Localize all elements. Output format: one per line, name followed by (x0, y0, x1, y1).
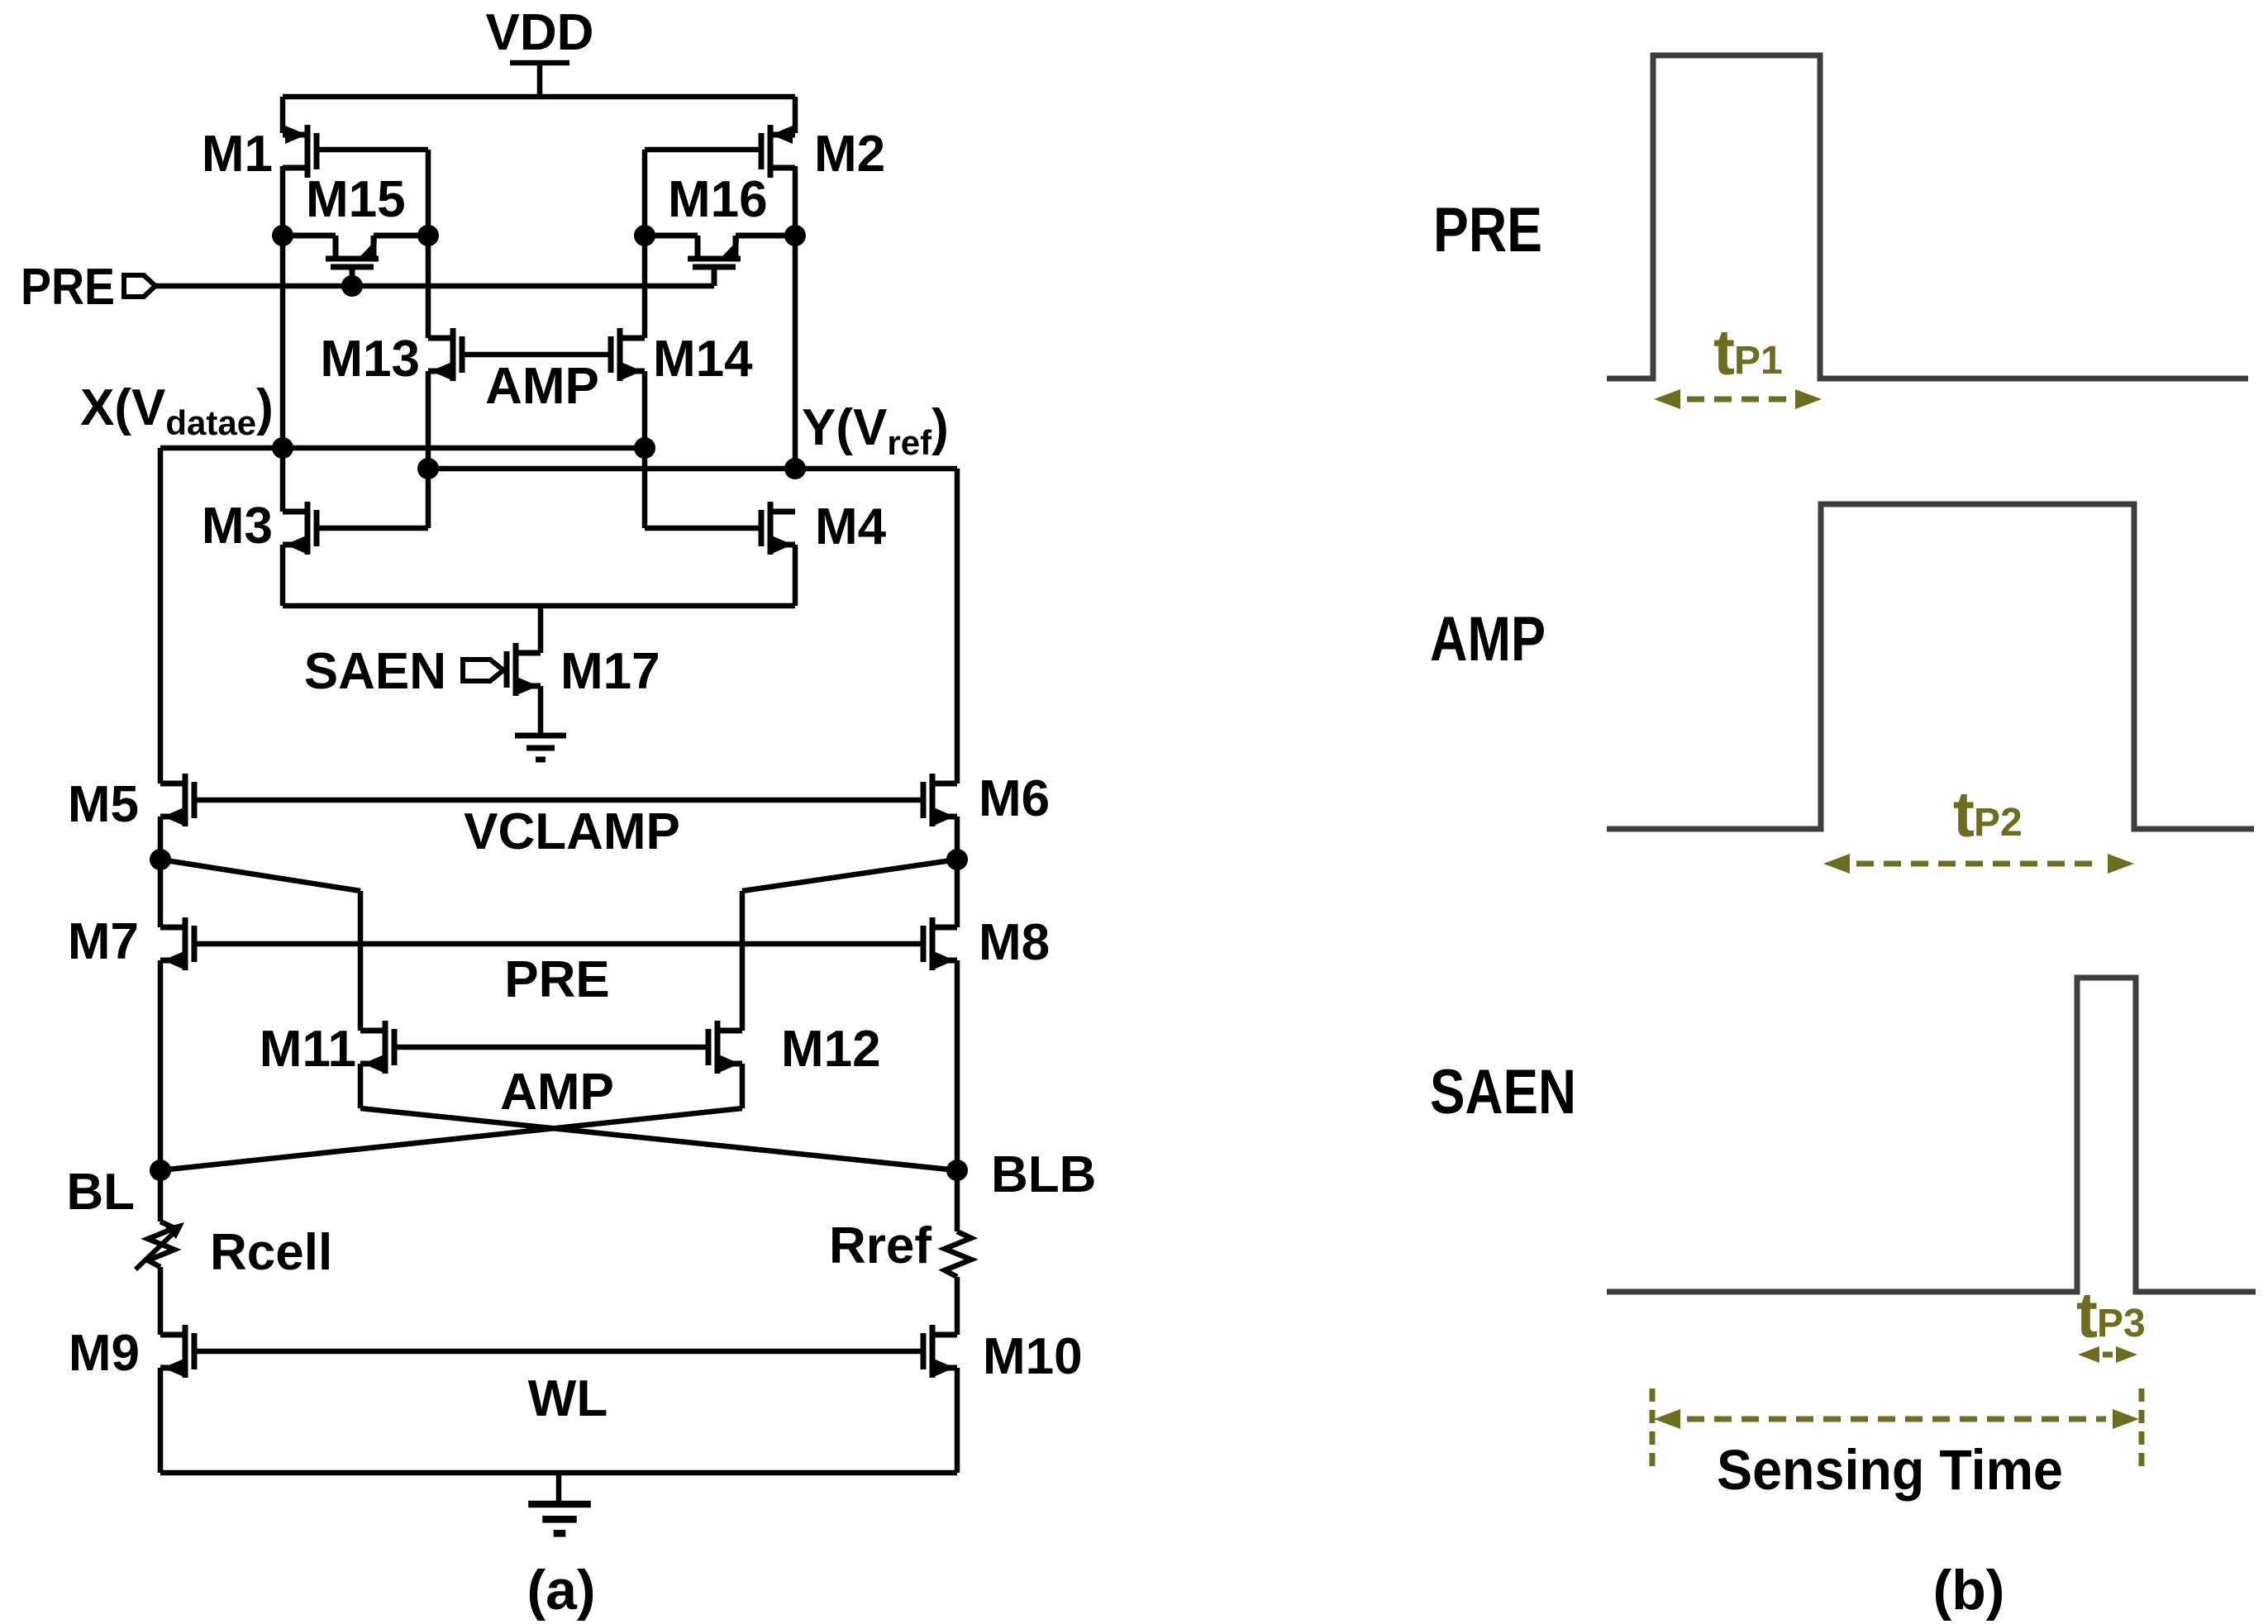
svg-text:(b): (b) (1933, 1559, 2005, 1622)
svg-text:M15: M15 (306, 171, 406, 228)
svg-text:PRE: PRE (21, 259, 115, 316)
svg-text:M9: M9 (69, 1325, 140, 1382)
svg-text:BLB: BLB (991, 1146, 1096, 1203)
svg-text:SAEN: SAEN (1430, 1057, 1576, 1127)
svg-text:M16: M16 (668, 171, 768, 228)
svg-text:M12: M12 (781, 1021, 881, 1078)
svg-text:AMP: AMP (1430, 604, 1546, 674)
svg-text:M11: M11 (260, 1021, 356, 1078)
svg-text:AMP: AMP (500, 1064, 614, 1121)
svg-text:M2: M2 (814, 126, 885, 183)
svg-text:AMP: AMP (485, 358, 599, 415)
svg-text:M14: M14 (653, 331, 753, 388)
svg-text:(a): (a) (526, 1559, 595, 1622)
svg-text:M10: M10 (983, 1328, 1083, 1385)
svg-text:Sensing Time: Sensing Time (1717, 1438, 2063, 1502)
svg-text:P1: P1 (1734, 339, 1783, 383)
svg-text:M4: M4 (815, 498, 887, 555)
svg-text:M7: M7 (68, 913, 139, 970)
svg-text:M5: M5 (68, 776, 139, 833)
svg-text:t: t (1713, 316, 1735, 388)
svg-text:P2: P2 (1974, 801, 2023, 845)
svg-text:P3: P3 (2097, 1302, 2146, 1345)
svg-text:SAEN: SAEN (304, 643, 446, 700)
svg-text:t: t (1953, 778, 1975, 850)
svg-text:VCLAMP: VCLAMP (464, 803, 680, 860)
svg-text:PRE: PRE (1433, 195, 1542, 265)
svg-text:M13: M13 (320, 331, 420, 388)
svg-text:Rref: Rref (829, 1217, 931, 1274)
svg-text:M8: M8 (979, 914, 1050, 971)
svg-text:PRE: PRE (504, 951, 609, 1008)
svg-text:WL: WL (528, 1370, 607, 1427)
svg-text:M17: M17 (560, 643, 660, 700)
svg-text:M3: M3 (202, 498, 273, 555)
svg-text:t: t (2076, 1279, 2098, 1351)
svg-text:VDD: VDD (486, 4, 594, 61)
svg-text:M6: M6 (979, 770, 1050, 827)
svg-text:BL: BL (66, 1164, 135, 1221)
svg-text:Rcell: Rcell (210, 1224, 332, 1281)
svg-text:M1: M1 (202, 126, 273, 183)
